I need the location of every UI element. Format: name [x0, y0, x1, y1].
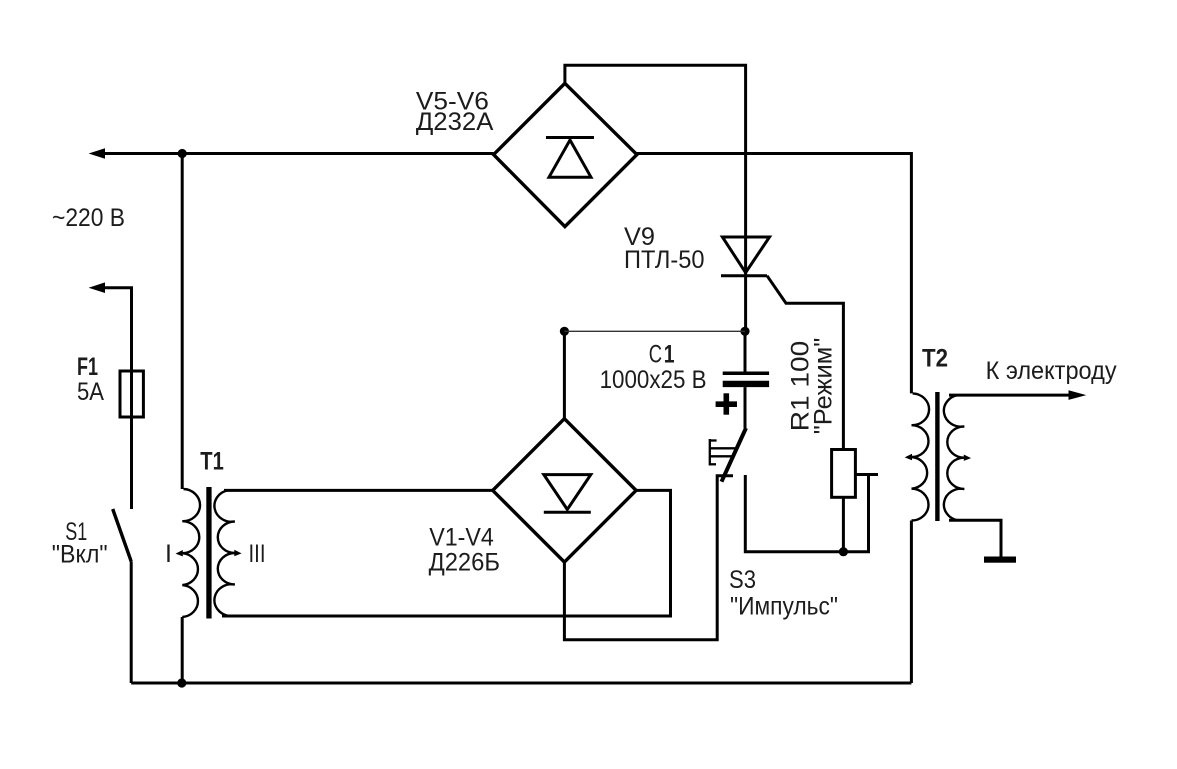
wire T2 secondary top lead — [949, 394, 1070, 397]
wire C1 top lead — [744, 331, 747, 371]
transformer T1 winding III cusp tick — [234, 550, 241, 556]
switch S3 pushbutton bracket — [710, 439, 735, 466]
wire left rail lower — [181, 617, 184, 683]
wire V9 gate to R1 — [767, 276, 843, 450]
svg-text:К электроду: К электроду — [986, 357, 1117, 385]
svg-text:I: I — [165, 540, 172, 568]
wire S1 to bottom rail — [130, 561, 133, 683]
svg-text:III: III — [249, 540, 266, 568]
switch S1 blade — [113, 509, 132, 561]
node dot top-left junction — [178, 149, 187, 158]
capacitor C1 plates — [723, 372, 769, 376]
transformer T1 winding I — [182, 489, 200, 617]
transformer T2 secondary cusp tick — [964, 455, 971, 461]
transformer T2 secondary winding — [944, 395, 964, 520]
wire C1 bottom lead to S3 — [744, 387, 747, 428]
svg-text:Т2: Т2 — [922, 344, 948, 372]
transformer T2 core — [935, 392, 939, 521]
svg-text:Т1: Т1 — [200, 448, 224, 476]
wire left rail — [181, 154, 184, 490]
wire T2 secondary bottom lead — [949, 520, 1001, 557]
node dot C1 left — [560, 327, 569, 336]
svg-text:Д232А: Д232А — [416, 108, 494, 136]
svg-text:C: C — [649, 341, 662, 369]
wire bridge V1 bottom loop to S3 left contact — [564, 476, 733, 640]
svg-text:"Вкл": "Вкл" — [52, 541, 108, 569]
wire top main left — [100, 152, 494, 155]
transformer T2 primary cusp tick — [905, 454, 912, 460]
svg-text:S3: S3 — [729, 566, 756, 594]
transformer T1 core — [206, 487, 211, 619]
svg-text:1000х25 В: 1000х25 В — [600, 366, 707, 394]
wire R1 tap tick — [855, 473, 878, 476]
transformer T1 winding III — [214, 490, 234, 616]
wire bridge V1 left lead to T1 winding III — [224, 489, 493, 492]
transformer T1 winding I cusp tick — [176, 550, 183, 556]
transformer T2 primary winding — [912, 393, 930, 520]
svg-text:Д226Б: Д226Б — [429, 549, 500, 577]
arrow mains top — [89, 148, 105, 159]
svg-text:ПТЛ-50: ПТЛ-50 — [624, 246, 705, 274]
svg-text:1: 1 — [664, 341, 675, 369]
switch S3 blade — [722, 428, 747, 482]
fuse F1 — [120, 371, 143, 417]
svg-text:F1: F1 — [77, 353, 98, 381]
wire bottom rail — [131, 682, 911, 685]
resistor R1 — [832, 450, 856, 498]
wire ~220 branch to fuse — [101, 288, 132, 371]
node dot C1 right — [740, 327, 749, 336]
wire bridge V1 right loop to winding III bottom — [222, 490, 671, 616]
wire fuse to S1 — [130, 371, 133, 509]
ground — [984, 557, 1016, 563]
diode inside V5-V6 — [546, 138, 594, 178]
wire C1 node link (thin) — [564, 330, 745, 332]
wire top main right — [637, 154, 912, 394]
wire T2 rail lower — [910, 521, 913, 684]
wire V9 cathode down to C1 node — [744, 276, 747, 332]
wire top loop V5 bridge to V9 — [565, 65, 746, 275]
wire R1 bottom lead — [842, 497, 845, 551]
node dot bottom rail — [177, 678, 186, 687]
bridge V5-V6 diamond — [494, 83, 637, 226]
arrow to electrode — [1069, 390, 1087, 400]
node dot R1 bottom — [839, 547, 848, 556]
svg-text:5А: 5А — [77, 378, 104, 406]
bridge V1-V4 diamond — [493, 419, 636, 562]
svg-text:V1-V4: V1-V4 — [429, 524, 494, 552]
arrow mains bottom — [89, 282, 105, 293]
thyristor V9 — [721, 237, 770, 276]
wire S3 right contact to R1 bottom — [745, 475, 868, 552]
diode inside V1-V4 — [544, 475, 591, 513]
svg-text:~220 В: ~220 В — [52, 204, 125, 232]
svg-text:"Режим": "Режим" — [810, 338, 838, 435]
svg-text:"Импульс": "Импульс" — [730, 593, 838, 621]
capacitor C1 polarity plus — [716, 393, 737, 414]
wire bridge V1 top vertex up — [563, 331, 566, 418]
